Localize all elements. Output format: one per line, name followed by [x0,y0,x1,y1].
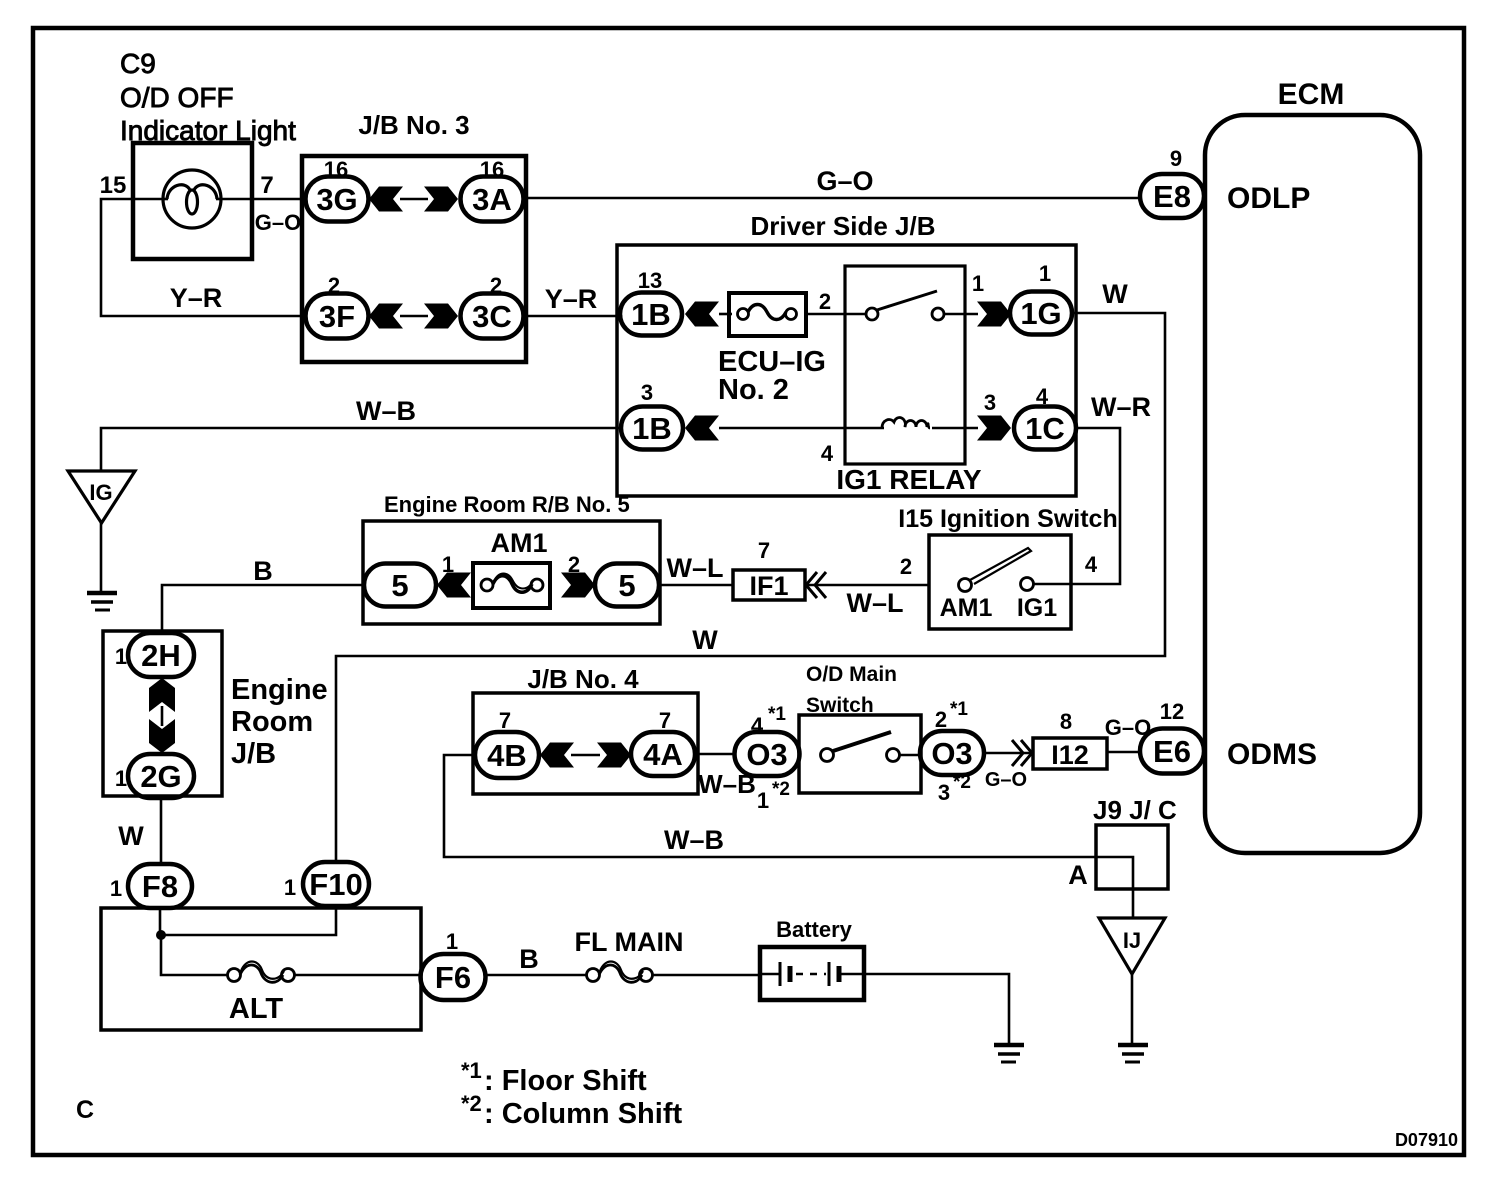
connector F10 pin 1 [284,862,369,906]
svg-text:1: 1 [757,788,769,813]
junction arrow right (3C) [424,304,458,329]
svg-text:4: 4 [821,441,834,466]
indicator light C9 [133,143,252,259]
connector 2G pin 1 [115,754,194,798]
svg-text:F8: F8 [142,869,178,904]
wire ALT to F6 [294,974,421,977]
svg-text:*1: *1 [768,704,786,725]
svg-text:1C: 1C [1025,411,1065,446]
wire fuse to relay contact [804,313,867,316]
indicator light C9 label [120,48,296,146]
wire O3 to I12 [984,752,1033,755]
fusible link I12 [1033,738,1107,770]
switch O/D Main Switch [799,663,921,793]
wire between arrows [571,754,600,757]
fuse label ECU-IG No. 2 [718,346,826,406]
relay contact [866,291,944,320]
junction arrow left (5) [437,573,471,598]
svg-text:4B: 4B [487,738,527,773]
connector O3 right pins 2*1 3*2 [920,699,984,805]
connector 5 right [595,564,659,607]
wire junction down to ALT row [161,935,227,975]
svg-text:8: 8 [1060,709,1072,734]
junction block Engine Room J/B [103,631,328,796]
svg-text:*2: *2 [461,1091,482,1116]
svg-text:IG1: IG1 [1017,594,1057,622]
wire IF1 to ignition switch [805,584,929,587]
svg-text:F6: F6 [435,960,471,995]
svg-text:W: W [118,821,144,851]
svg-text:1B: 1B [631,297,671,332]
wire 4A to O3 [695,753,735,756]
svg-text:AM1: AM1 [490,528,547,558]
svg-text:J9 J/ C: J9 J/ C [1093,795,1177,825]
wire to relay coil [719,427,884,430]
svg-text:J/B: J/B [231,738,276,770]
svg-text:E8: E8 [1153,179,1191,214]
wire 5 to IF1 W-L [659,584,733,587]
svg-text:W–L: W–L [667,553,724,583]
svg-text:4: 4 [1085,552,1098,577]
svg-text:W: W [1102,279,1128,309]
relay IG1 box [845,266,965,464]
wire triangle to ground [100,523,103,592]
junction arrow down (2G) [149,719,175,753]
svg-text:3: 3 [984,390,996,415]
svg-text:13: 13 [638,268,662,293]
svg-text:G–O: G–O [816,166,873,196]
junction block J9 J/C [1093,795,1177,889]
svg-text:4A: 4A [643,737,683,772]
node junction dot [156,930,166,940]
svg-text:9: 9 [1170,146,1182,171]
svg-text:D07910: D07910 [1395,1130,1458,1150]
switch I15 Ignition Switch [898,505,1117,629]
junction arrow right (1C) [977,416,1011,441]
svg-text:F10: F10 [309,867,362,902]
svg-text:*1: *1 [950,699,968,720]
junction block J/B No. 3 [302,110,526,362]
svg-text:AM1: AM1 [940,594,993,622]
wire between arrows [400,198,428,201]
svg-text:G–O: G–O [255,210,301,235]
wire arrow to fuse [719,313,732,316]
wire 1B3 W-B to ground [101,428,621,471]
svg-text:1G: 1G [1020,296,1061,331]
svg-text:W–B: W–B [664,825,724,855]
wire I12 to E6 [1107,751,1140,754]
svg-text:1: 1 [115,644,127,669]
fuse ECU-IG No.2 [729,293,806,336]
wire 1C to ignition switch pin 4 [1071,428,1120,584]
svg-text:1: 1 [446,929,458,954]
svg-text:W–L: W–L [847,588,904,618]
svg-text:1: 1 [115,766,127,791]
svg-text:15: 15 [100,172,127,199]
svg-text:7: 7 [659,708,671,733]
svg-text:IG1 RELAY: IG1 RELAY [836,464,982,495]
chevron junction marks [806,572,826,598]
svg-text:W–B: W–B [356,396,416,426]
note 2 Column Shift [461,1091,682,1130]
svg-text:5: 5 [618,568,635,603]
wire 2G to F8 W [160,798,163,864]
relay block Engine Room R/B No. 5 [363,492,660,624]
note 1 Floor Shift [461,1058,647,1097]
fusible link FL MAIN symbol [587,962,653,983]
svg-text:7: 7 [758,538,770,563]
connector 2H pin 1 [115,633,194,677]
svg-text:Room: Room [231,706,313,738]
svg-text:3C: 3C [472,299,512,334]
svg-text:Y–R: Y–R [545,284,598,314]
junction arrow right (5) [561,573,595,598]
junction block Driver Side J/B [617,211,1076,496]
svg-text:2H: 2H [141,638,181,673]
wire B from engine room jb [162,585,364,631]
svg-text:W–R: W–R [1091,392,1151,422]
svg-text:2: 2 [900,554,912,579]
svg-text:1: 1 [284,875,296,900]
connector 3A pin 16 [461,157,524,222]
ground symbol IJ [1118,1045,1148,1062]
svg-text:*2: *2 [953,772,971,793]
svg-text:ALT: ALT [229,993,284,1025]
svg-text:J/B No. 3: J/B No. 3 [358,110,469,140]
svg-text:Battery: Battery [776,917,853,942]
svg-text:2: 2 [935,707,947,732]
battery BT1 [760,917,864,1000]
connector 5 left [364,564,436,607]
junction arrow right (3A) [424,187,458,212]
svg-text:3A: 3A [472,182,512,217]
svg-text:2G: 2G [140,759,181,794]
wire 1B13 row Y-R entry [620,315,622,316]
svg-text:C9: C9 [120,48,156,79]
wire 3C to 1B Y-R [524,315,620,318]
svg-text:J/B No. 4: J/B No. 4 [527,664,639,694]
wire lamp pin7 to 3G [133,198,163,201]
alternator ALT symbol [228,962,295,1026]
ground triangle IJ [1099,918,1165,974]
svg-text:FL MAIN: FL MAIN [575,927,684,957]
svg-text:C: C [76,1096,94,1124]
svg-text:Driver Side J/B: Driver Side J/B [751,211,936,241]
connector 3C pin 2 [461,273,524,339]
wire F6 to FL MAIN B [485,974,587,977]
svg-text:Y–R: Y–R [170,283,223,313]
wire battery to ground [864,974,1009,1044]
svg-text:5: 5 [391,568,408,603]
junction block J/B No. 4 [473,664,698,794]
junction arrow right (1G) [977,302,1011,327]
junction arrow right (4A) [597,743,631,768]
connector O3 left pins 4*1 1*2 [735,704,800,813]
svg-text:ECM: ECM [1278,78,1345,111]
wire between vertical arrows [161,706,164,726]
connector 4A pin 7 [631,708,695,776]
svg-text:3G: 3G [316,182,357,217]
fusible link IF1 [733,570,805,601]
wire F8 down to junction [159,908,162,935]
svg-text:Engine: Engine [231,674,328,706]
junction arrow left (1B 3) [685,416,719,441]
wire FL MAIN to battery [652,974,760,977]
connector 3G pin 16 [306,157,369,222]
connector 1B pin 3 [621,380,683,450]
connector F6 pin 1 [421,929,486,1000]
svg-text:2: 2 [819,289,831,314]
connector E8 pin 9 [1140,146,1204,218]
fuse AM1 [473,528,550,608]
svg-text:E6: E6 [1153,734,1191,769]
junction arrow left (3F) [369,304,403,329]
junction arrow left (4B) [540,743,574,768]
svg-text:I12: I12 [1051,740,1089,770]
svg-text:ODMS: ODMS [1227,738,1317,771]
svg-text:G–O: G–O [1105,715,1151,740]
svg-text:IF1: IF1 [749,571,788,601]
svg-text:1B: 1B [632,411,672,446]
svg-text:*1: *1 [461,1058,482,1083]
wire 1G W to ignition loop [336,313,1165,863]
svg-text:G–O: G–O [985,769,1027,791]
alternator ALT box [101,908,421,1030]
wire 3A to E8 G-O [524,197,1140,200]
svg-text:ODLP: ODLP [1227,182,1310,215]
svg-text:3: 3 [641,380,653,405]
wire 4B down to W-B run [444,755,1096,857]
svg-text:3F: 3F [319,299,355,334]
connector F8 pin 1 [110,864,192,908]
connector E6 pin 12 [1140,699,1204,774]
svg-text:B: B [519,944,539,974]
ground triangle IG [68,471,135,523]
svg-text:IJ: IJ [1123,928,1141,953]
svg-text:No. 2: No. 2 [718,374,789,406]
connector 3F pin 2 [306,273,369,339]
chevron junction marks right [1012,740,1032,766]
svg-text:3: 3 [938,780,950,805]
ECM module U1 [1205,78,1420,853]
svg-text:12: 12 [1160,699,1184,724]
svg-text:7: 7 [499,708,511,733]
svg-text:O/D OFF: O/D OFF [120,82,234,113]
svg-text:7: 7 [260,172,273,199]
svg-text:IG: IG [89,480,112,505]
junction arrow left (3G) [369,187,403,212]
svg-text:1: 1 [972,271,984,296]
wire F10 down and left to junction [160,906,336,935]
ground symbol IG [87,593,117,610]
svg-text:W: W [692,625,718,655]
svg-text:1: 1 [1039,261,1051,286]
svg-text:Engine Room R/B No. 5: Engine Room R/B No. 5 [384,492,630,517]
svg-text:*2: *2 [772,779,790,800]
svg-text:B: B [253,556,273,586]
svg-text:1: 1 [110,876,122,901]
svg-text:I15 Ignition Switch: I15 Ignition Switch [898,505,1117,533]
relay coil L1 [882,418,930,428]
connector 1B pin 13 [620,268,682,336]
wire coil to arrow [932,427,978,430]
wire lamp left to node [101,199,306,316]
svg-text:O/D Main: O/D Main [806,663,897,686]
svg-text:O3: O3 [746,737,787,772]
connector 1C pin 4 [1014,384,1076,450]
ground symbol battery [994,1045,1024,1062]
svg-text:A: A [1068,860,1088,890]
svg-text:: Floor Shift: : Floor Shift [484,1065,647,1097]
junction arrow up (2H) [149,678,175,712]
wire inside J9 down to IJ [1096,857,1133,918]
junction arrow left (1B 13) [685,302,719,327]
wire contact to arrow [944,313,978,316]
wire between arrows [400,315,428,318]
connector 1G pin 1 [1010,261,1072,335]
connector 4B pin 7 [475,708,539,778]
svg-text:: Column Shift: : Column Shift [484,1098,682,1130]
svg-text:O3: O3 [931,736,972,771]
wire IJ to ground [1131,974,1134,1043]
